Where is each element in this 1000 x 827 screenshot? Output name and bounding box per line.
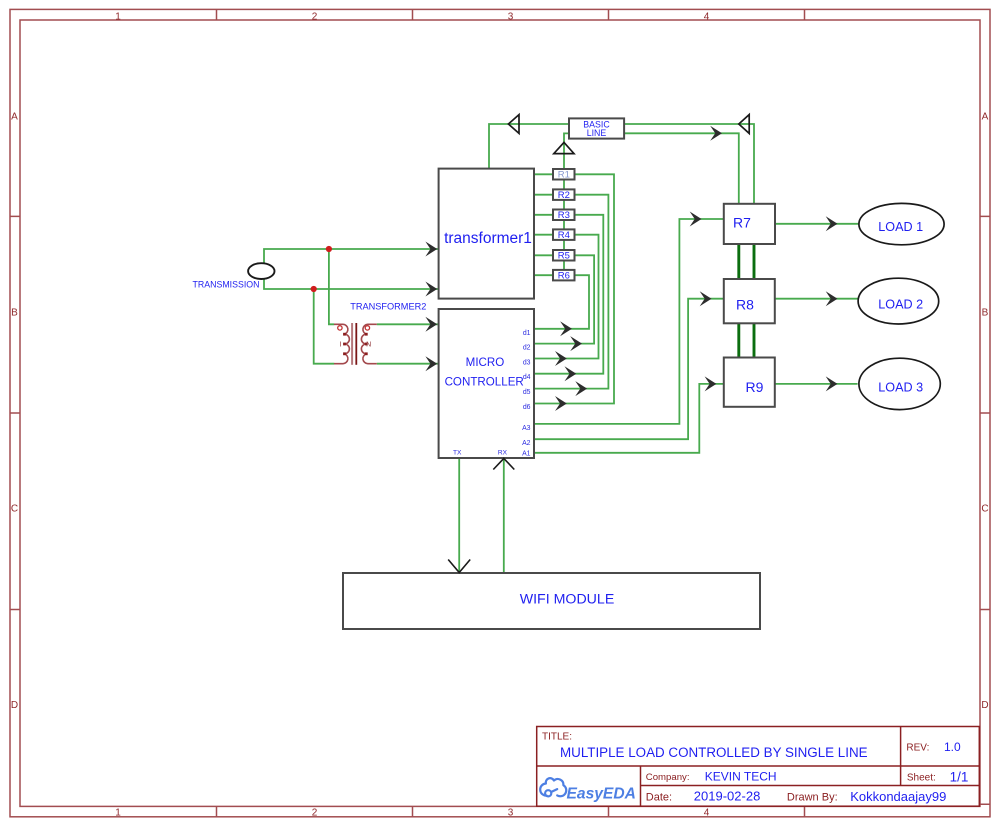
wire: [534, 174, 553, 275]
svg-text:1.0: 1.0: [944, 740, 961, 754]
svg-text:1: 1: [115, 808, 121, 819]
transformer1 block: [439, 169, 534, 299]
wire: [264, 249, 438, 289]
svg-text:d6: d6: [523, 404, 531, 411]
svg-text:d3: d3: [523, 360, 531, 367]
svg-text:4: 4: [704, 12, 710, 23]
svg-text:3: 3: [508, 12, 514, 23]
wire RX: [503, 458, 505, 573]
wire: [534, 235, 599, 359]
wire: [534, 384, 724, 453]
svg-text:TRANSMISSION: TRANSMISSION: [193, 280, 260, 290]
svg-text:d2: d2: [523, 345, 531, 352]
resistor R3: [553, 210, 575, 222]
title block: [537, 727, 980, 807]
svg-text:R8: R8: [736, 297, 754, 313]
svg-text:TITLE:: TITLE:: [542, 732, 572, 743]
wire: [739, 323, 754, 357]
open triangle arrow left (wire A left): [508, 115, 519, 134]
svg-text:LOAD 1: LOAD 1: [878, 220, 923, 234]
svg-text:Drawn By:: Drawn By:: [787, 792, 838, 804]
block R7: [724, 204, 775, 244]
svg-text:d1: d1: [523, 330, 531, 337]
junction dot: [326, 246, 332, 252]
wire: [377, 324, 438, 363]
svg-text:2019-02-28: 2019-02-28: [694, 789, 761, 804]
arrow into R7: [690, 212, 702, 227]
arrow d5: [575, 381, 587, 396]
wire TX: [458, 458, 460, 573]
svg-text:R1: R1: [558, 170, 570, 181]
arrow d3: [555, 351, 567, 366]
svg-text:R6: R6: [558, 271, 570, 282]
open arrow down (TX to WIFI): [448, 560, 470, 573]
svg-text:4: 4: [704, 808, 710, 819]
arrow d6: [555, 396, 567, 411]
svg-text:LINE: LINE: [587, 128, 607, 138]
micro controller block: [439, 309, 534, 458]
arrow to LOAD 3: [826, 376, 838, 391]
load LOAD 2: [858, 278, 939, 324]
arrow d4: [565, 366, 577, 381]
wire: [534, 195, 609, 389]
arrow into MC bottom: [425, 356, 437, 371]
wire: [739, 204, 754, 244]
svg-text:RX: RX: [498, 450, 508, 457]
svg-text:Sheet:: Sheet:: [907, 773, 936, 784]
load LOAD 3: [859, 358, 940, 409]
resistor R4: [553, 229, 575, 241]
svg-text:TX: TX: [453, 450, 462, 457]
wire: [564, 133, 569, 280]
WIFI MODULE block: [343, 573, 760, 629]
svg-text:R7: R7: [733, 214, 751, 230]
arrow to LOAD 1: [826, 216, 838, 231]
resistor R5: [553, 250, 575, 262]
svg-text:R9: R9: [746, 379, 764, 395]
svg-text:TRANSFORMER2: TRANSFORMER2: [350, 301, 426, 311]
wire: [624, 133, 739, 204]
wire: [739, 244, 754, 279]
svg-text:EasyEDA: EasyEDA: [567, 785, 636, 802]
wire: [534, 275, 590, 329]
open triangle arrow up (above R1): [554, 142, 574, 153]
svg-text:2: 2: [312, 808, 318, 819]
open arrow up (WIFI to RX): [493, 458, 514, 469]
block R8: [724, 279, 775, 323]
EasyEDA logo: [540, 778, 636, 802]
resistor R6: [553, 270, 575, 282]
svg-text:LOAD 3: LOAD 3: [878, 380, 923, 394]
svg-text:REV:: REV:: [906, 743, 929, 754]
svg-text:A3: A3: [522, 425, 531, 432]
svg-text:A1: A1: [522, 450, 531, 457]
svg-text:1/1: 1/1: [950, 770, 969, 785]
svg-text:A: A: [11, 112, 18, 123]
svg-text:LOAD 2: LOAD 2: [878, 298, 923, 312]
wire: [775, 298, 859, 300]
svg-text:D: D: [11, 700, 18, 711]
svg-text:transformer1: transformer1: [444, 230, 532, 247]
svg-text:R5: R5: [558, 251, 570, 262]
transformer TRANSFORMER2: [334, 301, 426, 365]
svg-text:Kokkondaajay99: Kokkondaajay99: [850, 789, 946, 804]
wire: [534, 219, 724, 424]
svg-text:KEVIN TECH: KEVIN TECH: [705, 770, 777, 784]
load LOAD 1: [859, 203, 944, 244]
wire: [534, 174, 615, 403]
arrow into transformer1 top: [425, 242, 437, 257]
svg-text:N: N: [366, 342, 371, 349]
wire: [489, 124, 569, 169]
arrow d1: [560, 321, 572, 336]
block R9: [724, 358, 775, 407]
svg-text:2: 2: [312, 12, 318, 23]
svg-text:D: D: [981, 700, 988, 711]
BASIC LINE label box: [569, 118, 624, 138]
svg-text:R2: R2: [558, 190, 570, 201]
junction dot: [311, 286, 317, 292]
svg-text:WIFI MODULE: WIFI MODULE: [520, 592, 615, 608]
arrow into transformer1 bottom: [425, 282, 437, 297]
svg-text:I: I: [340, 342, 342, 349]
wire: [534, 255, 595, 343]
svg-text:B: B: [982, 308, 989, 319]
svg-text:C: C: [981, 504, 988, 515]
open triangle arrow left (wire A right): [739, 115, 749, 134]
svg-text:MICRO: MICRO: [466, 356, 505, 369]
svg-text:MULTIPLE LOAD CONTROLLED BY SI: MULTIPLE LOAD CONTROLLED BY SINGLE LINE: [560, 745, 868, 760]
wire: [775, 383, 858, 385]
arrow into R8: [700, 291, 712, 306]
arrow into R9: [705, 376, 717, 391]
svg-text:A2: A2: [522, 440, 531, 447]
svg-text:B: B: [11, 308, 18, 319]
svg-text:R3: R3: [558, 210, 570, 221]
arrow into MC top: [425, 317, 437, 332]
wire: [534, 299, 724, 440]
wire: [775, 223, 859, 225]
wire: [534, 215, 604, 374]
svg-text:C: C: [11, 504, 18, 515]
svg-text:CONTROLLER: CONTROLLER: [445, 375, 524, 388]
svg-text:d4: d4: [523, 374, 531, 381]
source TRANSMISSION: [193, 263, 275, 289]
svg-text:3: 3: [508, 808, 514, 819]
svg-text:Date:: Date:: [646, 792, 672, 804]
svg-text:d5: d5: [523, 389, 531, 396]
svg-text:A: A: [982, 112, 989, 123]
wire: [314, 249, 335, 364]
svg-text:1: 1: [115, 12, 121, 23]
arrow d2: [570, 336, 582, 351]
arrow on wire B: [710, 126, 722, 141]
resistor R1: [553, 169, 575, 181]
svg-text:R4: R4: [558, 230, 570, 241]
svg-text:Company:: Company:: [646, 772, 690, 783]
resistor R2: [553, 189, 575, 201]
wire: [624, 124, 754, 204]
arrow to LOAD 2: [826, 291, 838, 306]
